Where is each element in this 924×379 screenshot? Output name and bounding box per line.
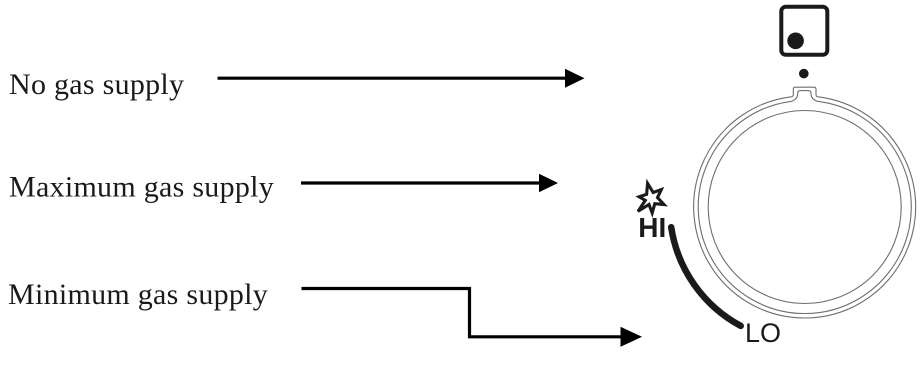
ignition symbol: filled dot inside square xyxy=(787,33,804,50)
arrow: no gas supply pointer xyxy=(218,69,585,88)
svg-text:Maximum gas supply: Maximum gas supply xyxy=(9,171,274,204)
ignition symbol: rounded square xyxy=(781,7,827,55)
thick arc from HI to LO xyxy=(671,227,741,326)
arrow: minimum gas supply bent pointer xyxy=(302,289,643,347)
svg-text:Minimum gas supply: Minimum gas supply xyxy=(8,278,268,311)
knob inner circle xyxy=(708,111,901,304)
knob outer rim with top tab xyxy=(694,87,916,318)
index dot above knob xyxy=(799,69,809,79)
svg-text:No gas supply: No gas supply xyxy=(9,68,184,101)
knob rim inner line with tab xyxy=(698,91,911,314)
spark icon xyxy=(638,183,664,213)
svg-text:LO: LO xyxy=(745,318,781,348)
svg-text:HI: HI xyxy=(638,212,666,243)
arrow: maximum gas supply pointer xyxy=(301,174,558,192)
